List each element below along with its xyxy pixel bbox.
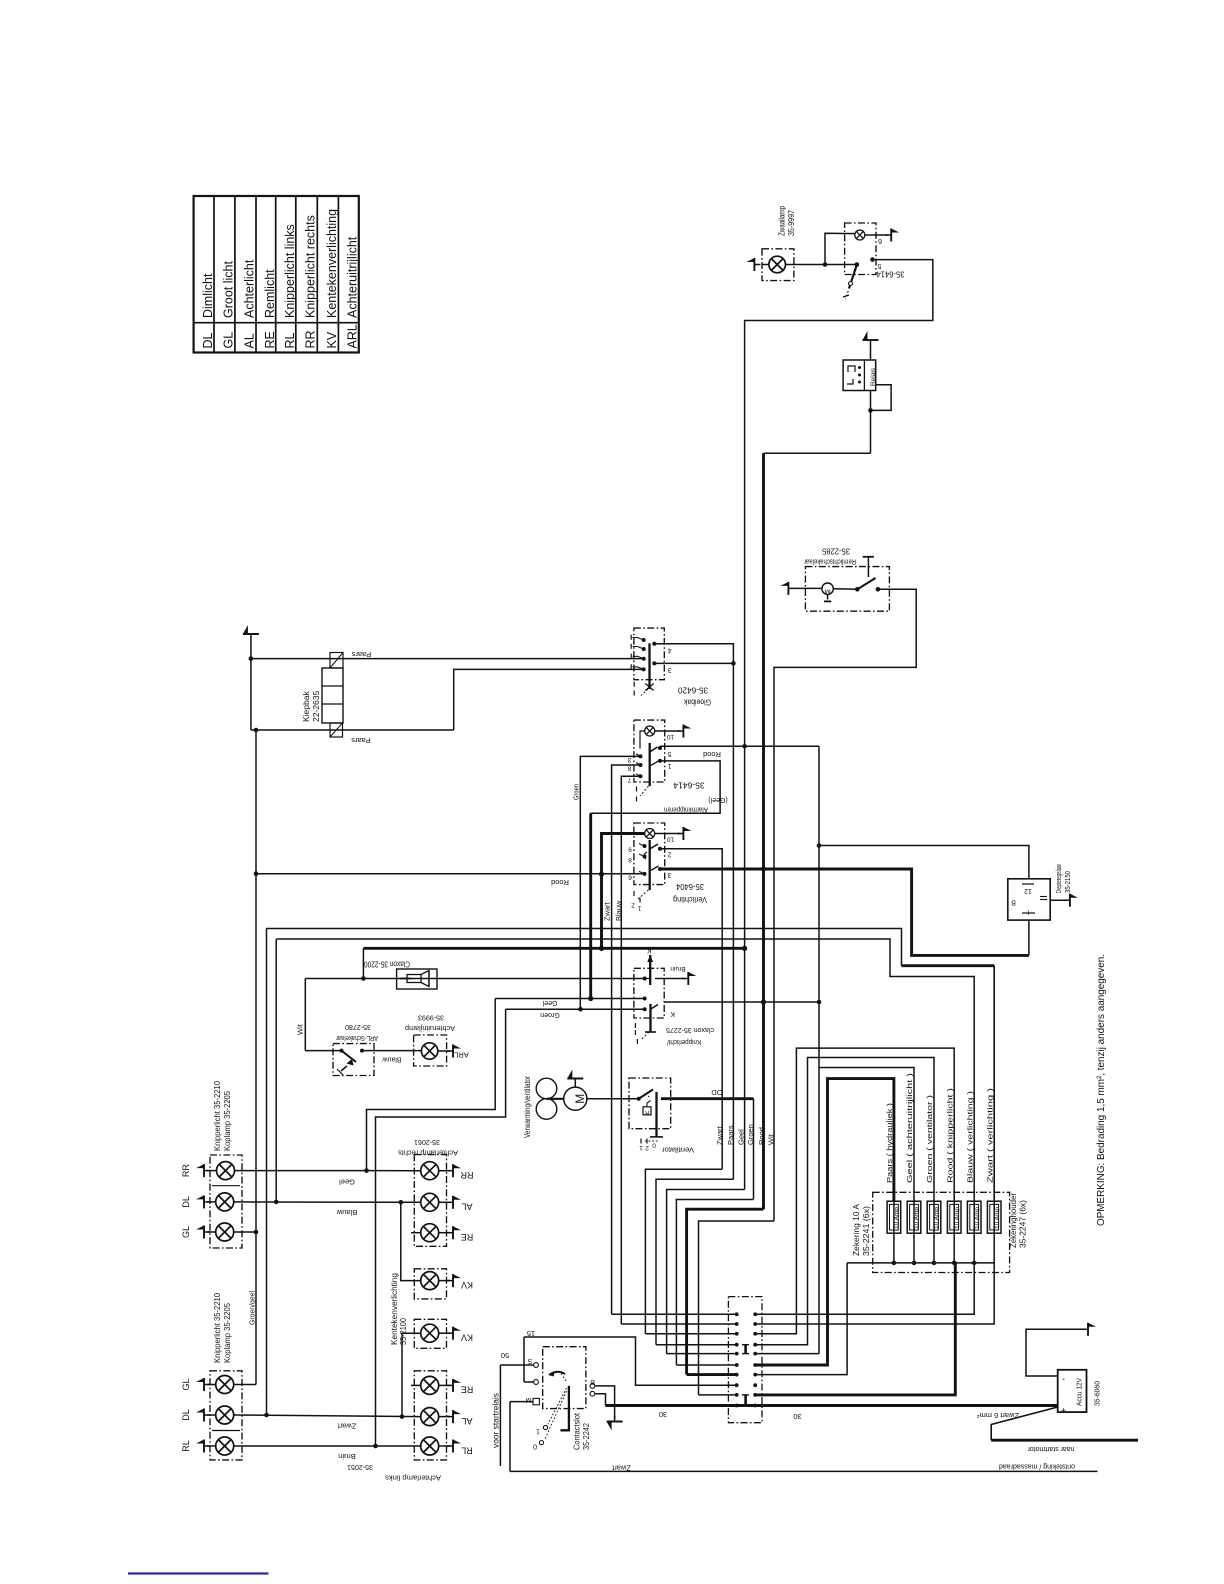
wire kiepbak bottom bbox=[251, 728, 454, 733]
lamp RE-R1 bbox=[411, 1224, 439, 1242]
wire indicator to ground bbox=[865, 229, 899, 244]
wire Rood vertical thick bbox=[762, 453, 765, 1209]
wire relay top bbox=[870, 346, 872, 360]
lamp GL-L2 bbox=[216, 1376, 234, 1394]
svg-text:3: 3 bbox=[667, 871, 671, 878]
footer blue line bbox=[128, 1572, 269, 1574]
staircase Paars bbox=[656, 1179, 733, 1345]
indicator lamp 6414 bbox=[645, 726, 655, 736]
battery box bbox=[1058, 1370, 1087, 1412]
svg-text:Achteruitrijlamp: Achteruitrijlamp bbox=[405, 1024, 455, 1033]
labels Kentekenverlichting bbox=[390, 1273, 408, 1345]
svg-text:1: 1 bbox=[639, 1144, 643, 1151]
svg-text:Achterlicht: Achterlicht bbox=[242, 259, 256, 318]
contacts 6414 left bbox=[627, 754, 642, 783]
wire 15 bbox=[524, 1329, 737, 1385]
svg-text:Knipperlicht links: Knipperlicht links bbox=[283, 224, 297, 318]
svg-text:Verlichting: Verlichting bbox=[673, 895, 707, 905]
battery minus wire bbox=[1026, 1323, 1096, 1376]
ARL switch contacts bbox=[337, 1049, 364, 1075]
fuse bottom bus bbox=[847, 1261, 995, 1266]
terminal digits 35-6420 bbox=[668, 646, 672, 673]
svg-text:KV: KV bbox=[461, 1280, 473, 1290]
svg-text:B: B bbox=[1011, 898, 1016, 905]
legend table frame bbox=[194, 196, 359, 353]
svg-text:35-2285: 35-2285 bbox=[822, 546, 850, 556]
svg-text:Contactslot: Contactslot bbox=[572, 1412, 581, 1450]
svg-text:OD: OD bbox=[711, 1088, 723, 1097]
claxon horn symbol bbox=[400, 971, 429, 987]
lamp AL-R1 bbox=[421, 1193, 439, 1211]
motor M bbox=[564, 1087, 587, 1110]
svg-text:2: 2 bbox=[631, 902, 635, 909]
wire 6404 t3 thick bbox=[660, 866, 1029, 955]
labels Knipperlicht/Koplamp top bbox=[212, 1081, 232, 1151]
svg-text:Relais: Relais bbox=[870, 367, 877, 386]
svg-text:Achterlamp links: Achterlamp links bbox=[385, 1473, 441, 1482]
box achterlamp rechts bbox=[414, 1155, 446, 1247]
svg-text:KV: KV bbox=[325, 331, 339, 348]
svg-text:30: 30 bbox=[659, 1410, 667, 1419]
note OPMERKING bbox=[1095, 954, 1107, 1226]
box headlamps bottom bbox=[210, 1371, 242, 1460]
label Relais bbox=[870, 367, 877, 386]
box ARL lamp bbox=[414, 1035, 447, 1066]
svg-text:6: 6 bbox=[628, 874, 632, 881]
label Paars bottom bbox=[351, 736, 371, 745]
row1 right to fuse bbox=[755, 1263, 974, 1314]
svg-text:RR: RR bbox=[304, 330, 318, 348]
wire DL column 2 bbox=[275, 939, 277, 1202]
svg-text:Geel: Geel bbox=[737, 1129, 746, 1145]
svg-text:Knipperlicht 35-2210: Knipperlicht 35-2210 bbox=[212, 1081, 222, 1151]
svg-text:Wit: Wit bbox=[767, 1133, 776, 1145]
svg-text:Groen: Groen bbox=[572, 784, 581, 800]
box headlamps top bbox=[210, 1155, 242, 1248]
ground ARL bbox=[438, 1045, 469, 1060]
svg-text:3: 3 bbox=[668, 666, 672, 673]
wire Groen row bbox=[506, 1007, 645, 1018]
svg-text:GL: GL bbox=[221, 332, 235, 349]
box KV1 bbox=[414, 1269, 446, 1299]
labels ARL-Schakelaar bbox=[336, 1023, 378, 1043]
svg-text:K: K bbox=[646, 946, 651, 953]
battery plus cable bbox=[977, 1407, 1138, 1454]
svg-text:ontsteking / massadraad: ontsteking / massadraad bbox=[999, 1462, 1075, 1471]
svg-text:9: 9 bbox=[628, 846, 632, 853]
svg-text:35-2780: 35-2780 bbox=[345, 1023, 371, 1032]
svg-text:Bruin: Bruin bbox=[670, 965, 686, 972]
lamp KV2 bbox=[421, 1324, 439, 1342]
kiepbak hatch bottom bbox=[330, 723, 343, 737]
wire DL-2 feed bbox=[276, 939, 974, 1202]
svg-text:DL: DL bbox=[201, 332, 215, 348]
wire Rood long bbox=[256, 874, 645, 887]
fuse colour labels bbox=[885, 1072, 994, 1183]
kiepbak connector body bbox=[322, 668, 343, 723]
svg-text:Zekering 10 A: Zekering 10 A bbox=[852, 1203, 861, 1256]
svg-text:DL: DL bbox=[181, 1409, 191, 1421]
svg-text:RR: RR bbox=[460, 1170, 473, 1180]
wire 6414 t1 loop bbox=[591, 761, 720, 813]
svg-text:35-6414: 35-6414 bbox=[673, 780, 704, 790]
svg-text:8: 8 bbox=[628, 856, 632, 863]
svg-text:Knipperlicht rechts: Knipperlicht rechts bbox=[304, 215, 318, 318]
flasher relay box bbox=[843, 360, 876, 391]
svg-text:Zwart ( verlichting ): Zwart ( verlichting ) bbox=[985, 1087, 994, 1183]
labels Achterlamp links bbox=[347, 1463, 441, 1483]
svg-text:R: R bbox=[644, 1109, 649, 1115]
label Verwarming/ventilator bbox=[523, 1076, 532, 1138]
row5 right nested bbox=[755, 1068, 914, 1354]
svg-text:Diepteregelaar: Diepteregelaar bbox=[1054, 864, 1063, 893]
svg-text:Zwart: Zwart bbox=[611, 1463, 631, 1472]
label Claxon 35-2200 bbox=[364, 960, 410, 969]
svg-text:22-2635: 22-2635 bbox=[311, 691, 321, 722]
svg-text:Groen: Groen bbox=[540, 1011, 560, 1018]
svg-text:RL: RL bbox=[461, 1445, 473, 1455]
grounds left top bbox=[196, 1164, 217, 1238]
svg-text:AL: AL bbox=[461, 1416, 472, 1426]
svg-text:Gloeibak: Gloeibak bbox=[683, 697, 711, 707]
svg-text:10 Amp: 10 Amp bbox=[934, 1207, 940, 1229]
svg-text:Claxon 35-2200: Claxon 35-2200 bbox=[364, 960, 410, 969]
label Groen mid bbox=[572, 784, 581, 800]
svg-text:7: 7 bbox=[627, 776, 631, 783]
svg-text:Rood: Rood bbox=[551, 878, 569, 887]
wire B2 to 30 bbox=[595, 1394, 606, 1406]
svg-text:Blauw: Blauw bbox=[614, 900, 623, 921]
connector link rows9-10 bbox=[742, 1395, 749, 1406]
wire GL column bbox=[248, 730, 259, 1385]
svg-text:0: 0 bbox=[533, 1442, 537, 1449]
svg-text:voor startrelais: voor startrelais bbox=[491, 1393, 500, 1448]
svg-text:35-9993: 35-9993 bbox=[418, 1013, 444, 1022]
svg-text:AL: AL bbox=[461, 1202, 472, 1212]
connector box bbox=[728, 1297, 762, 1423]
wire kiepbak top (to 35-6420) bbox=[251, 658, 644, 660]
beacon switch contact 5 bbox=[870, 257, 881, 269]
svg-text:10 Amp: 10 Amp bbox=[974, 1207, 980, 1229]
wire DL column 1 bbox=[266, 928, 268, 1415]
svg-text:35-2051: 35-2051 bbox=[347, 1463, 373, 1472]
wire 2275 K output bbox=[664, 999, 819, 1004]
wire beacon switch output bbox=[745, 260, 933, 1190]
svg-text:Paars ( hydrauliek ): Paars ( hydrauliek ) bbox=[885, 1102, 894, 1183]
beacon indicator lamp bbox=[855, 230, 865, 240]
svg-text:Koplamp 35-2205: Koplamp 35-2205 bbox=[222, 1303, 232, 1363]
lamp RE-R2 bbox=[411, 1376, 439, 1394]
ventilator switch blade bbox=[637, 1090, 663, 1152]
lamp GL-L1 bbox=[216, 1223, 234, 1241]
svg-text:-: - bbox=[1062, 1374, 1065, 1384]
svg-text:Achterlamp rechts: Achterlamp rechts bbox=[398, 1148, 458, 1157]
wire ARL switch in bbox=[305, 1050, 341, 1052]
svg-text:4: 4 bbox=[668, 646, 672, 653]
labels Achteruitrijlamp bbox=[405, 1013, 455, 1033]
svg-text:Geel: Geel bbox=[339, 1177, 355, 1186]
svg-text:5: 5 bbox=[877, 262, 881, 269]
svg-text:10: 10 bbox=[667, 733, 675, 740]
svg-text:Remlicht: Remlicht bbox=[263, 269, 277, 318]
row2 right to fuse bbox=[755, 1263, 994, 1324]
wire 2275 ground bbox=[655, 965, 696, 985]
wire B1 to ground bbox=[595, 1386, 623, 1431]
svg-text:Paars: Paars bbox=[726, 1125, 735, 1145]
ground brake switch bbox=[780, 582, 822, 595]
colour labels bundle bbox=[715, 1124, 776, 1145]
svg-text:10 Amp: 10 Amp bbox=[914, 1207, 920, 1229]
row4 right nested bbox=[755, 1058, 934, 1345]
wire DL row top bbox=[234, 1200, 421, 1217]
lamp DL-L1 bbox=[216, 1193, 234, 1211]
svg-text:35-2242: 35-2242 bbox=[582, 1422, 591, 1450]
ground motor bbox=[567, 1070, 583, 1088]
label 35-6414 beacon bbox=[876, 269, 904, 279]
wire 6404 lamp ground bbox=[655, 827, 692, 843]
svg-text:35-2247 (6x): 35-2247 (6x) bbox=[1018, 1200, 1027, 1248]
svg-text:Zwart 6 mm²: Zwart 6 mm² bbox=[977, 1411, 1019, 1420]
svg-text:Kentekenverlichting: Kentekenverlichting bbox=[390, 1273, 399, 1345]
svg-text:ARL-Schakelaar: ARL-Schakelaar bbox=[336, 1034, 378, 1043]
wire Geel feed vertical thick bbox=[589, 813, 592, 998]
wire 6414 t3 Groen bbox=[580, 756, 640, 1009]
wire 6420 out2 bbox=[664, 662, 733, 664]
svg-text:Blauw ( verlichting ): Blauw ( verlichting ) bbox=[965, 1090, 974, 1183]
svg-text:Knipperlicht/: Knipperlicht/ bbox=[666, 1038, 701, 1047]
wire Geel row bbox=[495, 996, 645, 1006]
svg-text:Accu 12V: Accu 12V bbox=[1075, 1378, 1084, 1406]
labels 35-6414 bbox=[664, 750, 728, 815]
svg-text:Kentekenverlichting: Kentekenverlichting bbox=[325, 209, 339, 318]
svg-text:B: B bbox=[590, 1378, 595, 1385]
svg-text:GL: GL bbox=[181, 1226, 191, 1238]
wire kiepbak bottom up-right bbox=[454, 669, 644, 730]
svg-text:10 Amp: 10 Amp bbox=[954, 1207, 960, 1229]
svg-text:claxon 35-2275: claxon 35-2275 bbox=[666, 1026, 714, 1035]
box 35-6414 bbox=[634, 720, 665, 782]
indicator lamp 6404 bbox=[645, 829, 655, 839]
svg-text:Rood: Rood bbox=[703, 750, 721, 759]
labels 35-6420 bbox=[678, 685, 711, 707]
lamp DL-L2 bbox=[216, 1406, 234, 1424]
svg-text:35-2241 (6x): 35-2241 (6x) bbox=[862, 1206, 871, 1256]
svg-text:KV: KV bbox=[461, 1332, 473, 1342]
lamp RR-L bbox=[217, 1162, 235, 1180]
wire ground to kiepbak bbox=[249, 640, 254, 661]
wire left loop to ARL switch bbox=[304, 979, 306, 1051]
kiepbak hatch top bbox=[330, 653, 343, 669]
svg-text:35-2150: 35-2150 bbox=[1063, 871, 1072, 893]
wire 30 thick bbox=[606, 1406, 1058, 1421]
svg-text:Blauw: Blauw bbox=[382, 1055, 402, 1062]
wire claxon row bbox=[305, 976, 644, 981]
svg-text:10: 10 bbox=[667, 836, 675, 843]
svg-text:2: 2 bbox=[667, 850, 671, 857]
svg-text:Zwaailamp: Zwaailamp bbox=[777, 206, 787, 236]
svg-text:35-6414: 35-6414 bbox=[876, 269, 904, 279]
connector link rows4-5 bbox=[742, 1345, 749, 1354]
wire M terminal bbox=[510, 1402, 533, 1472]
svg-text:3: 3 bbox=[627, 756, 631, 763]
labels RR DL GL bbox=[181, 1164, 191, 1238]
svg-text:Paars: Paars bbox=[351, 650, 371, 659]
ground diepteregelaar bbox=[1050, 894, 1078, 907]
svg-text:Zwart: Zwart bbox=[603, 901, 612, 921]
svg-text:Bruin: Bruin bbox=[338, 1452, 356, 1461]
brake switch contacts bbox=[833, 557, 880, 592]
labels Zekering bbox=[852, 1203, 871, 1256]
label Zwart verlichting bbox=[603, 901, 612, 921]
svg-text:35-6060: 35-6060 bbox=[1093, 1381, 1102, 1406]
labels 35-6404 bbox=[673, 882, 707, 905]
svg-text:Blauw: Blauw bbox=[336, 1208, 357, 1217]
staircase Geel bbox=[667, 1190, 745, 1354]
wire DL row bottom bbox=[234, 1413, 421, 1431]
grounds left bottom bbox=[196, 1378, 216, 1453]
svg-text:2: 2 bbox=[645, 1144, 649, 1151]
lamp RL-R bbox=[421, 1437, 439, 1455]
lamp KV1 bbox=[421, 1272, 439, 1290]
box 35-6420 bbox=[634, 628, 664, 680]
wire GL row bottom bbox=[234, 1384, 256, 1386]
label Wit left bbox=[296, 1023, 305, 1035]
wire RL row bbox=[234, 1444, 421, 1461]
wire ventilator out thick (Groen) bbox=[661, 1088, 754, 1099]
svg-text:10 Amp: 10 Amp bbox=[994, 1207, 1000, 1229]
brake switch box bbox=[805, 567, 889, 612]
blade 2275 upper bbox=[645, 946, 654, 985]
svg-text:RR: RR bbox=[181, 1164, 191, 1177]
flasher relay symbols bbox=[847, 366, 861, 384]
wire 6404 t2 Zwart bbox=[660, 849, 722, 1169]
wire 6414 t5 bbox=[660, 744, 819, 749]
svg-text:RL: RL bbox=[181, 1440, 191, 1452]
box 35-6404 bbox=[634, 823, 665, 885]
box contactslot bbox=[543, 1347, 586, 1409]
wire Groen staircase to RL lamps bbox=[376, 1009, 506, 1446]
brake switch motor bbox=[822, 583, 833, 601]
connector pins bbox=[735, 1312, 757, 1407]
label voor startrelais bbox=[491, 1393, 500, 1448]
contacts 2275 bbox=[643, 977, 647, 1012]
svg-text:10 Amp: 10 Amp bbox=[894, 1207, 900, 1229]
legend table text bbox=[201, 209, 360, 349]
junction Geel claxon bbox=[742, 946, 747, 951]
label Zwaailamp 35-9997 bbox=[777, 206, 797, 236]
staircase Groen bbox=[676, 1200, 753, 1366]
fuse holder box bbox=[873, 1192, 1010, 1272]
svg-text:Achteruitrijlicht: Achteruitrijlicht bbox=[346, 236, 360, 318]
staircase Wit bbox=[699, 1221, 775, 1395]
wire relay to alarm switch (Rood feed) bbox=[764, 452, 871, 454]
beacon lamp box bbox=[762, 249, 794, 281]
svg-text:M: M bbox=[573, 1094, 587, 1104]
staircase Rood thick bbox=[687, 1209, 764, 1374]
svg-text:naar startmotor: naar startmotor bbox=[1027, 1445, 1074, 1454]
svg-text:Zwart: Zwart bbox=[715, 1125, 724, 1145]
label Ventilator bbox=[661, 1145, 694, 1154]
ground beacon bbox=[746, 258, 769, 271]
svg-text:+: + bbox=[1061, 1405, 1066, 1415]
svg-text:35-6404: 35-6404 bbox=[676, 882, 704, 892]
svg-text:Kiepbak: Kiepbak bbox=[301, 691, 311, 722]
label Paars top bbox=[351, 650, 371, 659]
svg-text:K: K bbox=[670, 1010, 675, 1017]
label 35-2285 bbox=[803, 546, 856, 564]
svg-text:5: 5 bbox=[667, 750, 671, 757]
ground kiepbak bbox=[243, 625, 259, 640]
wire 6420 out1 (Paars top) bbox=[664, 644, 735, 1179]
wire DL-1 feed bbox=[267, 929, 995, 1202]
svg-text:ARL: ARL bbox=[454, 1050, 469, 1059]
svg-text:0: 0 bbox=[652, 1142, 656, 1149]
contacts 35-6420 left bbox=[631, 635, 646, 672]
svg-text:AL: AL bbox=[242, 333, 256, 348]
contactslot terminals bbox=[525, 1357, 594, 1405]
contactslot key symbol bbox=[533, 1371, 569, 1449]
labels GL DL RL bbox=[181, 1378, 191, 1451]
svg-text:Dimlicht: Dimlicht bbox=[201, 273, 215, 318]
contacts 6404 right bbox=[658, 847, 671, 878]
labels Zekeringhouder bbox=[1009, 1193, 1027, 1248]
wire diepteregelaar top feed bbox=[819, 846, 1029, 879]
box KV2 bbox=[414, 1319, 446, 1348]
svg-text:1: 1 bbox=[536, 1427, 540, 1434]
lamp AL-R2 bbox=[421, 1408, 439, 1426]
diepteregelaar symbols bbox=[1011, 884, 1047, 918]
connector left wires bbox=[612, 1314, 737, 1395]
row6 right nested thick bbox=[755, 1079, 894, 1365]
svg-text:35-6420: 35-6420 bbox=[678, 685, 708, 695]
svg-text:RE: RE bbox=[461, 1385, 474, 1395]
svg-text:1: 1 bbox=[667, 762, 671, 769]
blade 2275 lower bbox=[635, 1004, 674, 1044]
wire 6414 lamp ground bbox=[655, 725, 692, 741]
wire beacon to switch bbox=[786, 233, 857, 267]
row7 right to bus bbox=[755, 1263, 847, 1375]
svg-text:Rood ( knipperlicht ): Rood ( knipperlicht ) bbox=[945, 1087, 954, 1183]
labels Knipperlicht/Koplamp bottom bbox=[212, 1293, 232, 1363]
label Kiepbak 22-2635 bbox=[301, 691, 321, 722]
beacon switch blade bbox=[843, 262, 859, 299]
svg-text:RE: RE bbox=[461, 1232, 474, 1242]
lamp RR-R bbox=[421, 1162, 439, 1180]
svg-text:Groen/geel: Groen/geel bbox=[248, 1291, 257, 1325]
wire kiepbak left drop bbox=[250, 659, 252, 730]
svg-text:Paars: Paars bbox=[351, 736, 371, 745]
wire Groen vertical bbox=[753, 1099, 755, 1200]
blade 6414 bbox=[637, 743, 659, 802]
wire massa Zwart bbox=[510, 1462, 1098, 1472]
svg-text:35-2061: 35-2061 bbox=[414, 1138, 440, 1147]
svg-text:12: 12 bbox=[1024, 887, 1032, 894]
wire GL row top bbox=[234, 1230, 259, 1235]
ARL lamp bbox=[421, 1043, 437, 1059]
wire claxon thick feed bbox=[363, 946, 744, 979]
box diepteregelaar bbox=[1008, 879, 1050, 920]
svg-text:Koplamp 35-2205: Koplamp 35-2205 bbox=[222, 1091, 232, 1151]
row9 right to bus thick bbox=[755, 1263, 955, 1395]
svg-text:50: 50 bbox=[501, 1351, 509, 1360]
box achterlamp links bbox=[414, 1371, 446, 1460]
svg-text:DL: DL bbox=[181, 1196, 191, 1208]
svg-text:ARL: ARL bbox=[346, 324, 360, 348]
svg-text:Zekeringhouder: Zekeringhouder bbox=[1009, 1193, 1018, 1248]
row3 right nested bbox=[755, 1048, 954, 1334]
svg-text:Zwart: Zwart bbox=[337, 1421, 357, 1430]
svg-text:30: 30 bbox=[793, 1412, 801, 1421]
